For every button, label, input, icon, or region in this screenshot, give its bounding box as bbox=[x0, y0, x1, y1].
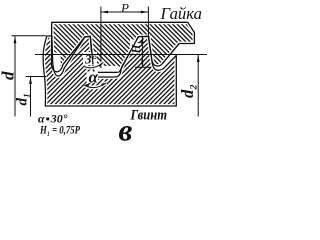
svg-text:3°: 3° bbox=[84, 52, 98, 67]
svg-text:H₁: H₁ bbox=[131, 41, 143, 55]
svg-text:d: d bbox=[0, 71, 18, 80]
svg-text:α: α bbox=[89, 68, 99, 87]
svg-text:Гайка: Гайка bbox=[159, 4, 202, 23]
svg-text:в: в bbox=[119, 113, 133, 145]
svg-text:d₁: d₁ bbox=[15, 93, 31, 106]
svg-text:P: P bbox=[120, 1, 129, 16]
svg-text:d₂: d₂ bbox=[178, 84, 197, 98]
svg-text:Гвинт: Гвинт bbox=[130, 108, 167, 124]
svg-text:H₁ = 0,75P: H₁ = 0,75P bbox=[39, 125, 80, 137]
